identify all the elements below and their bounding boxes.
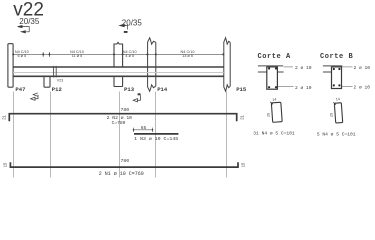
Corte A slab top line	[258, 65, 283, 67]
svg-text:2 N1 ø 10 C=760: 2 N1 ø 10 C=760	[99, 171, 144, 177]
rebar N3 dimension 65 line	[134, 128, 153, 132]
svg-text:2 ø 10: 2 ø 10	[354, 65, 371, 71]
rebar N3 bar	[134, 133, 178, 135]
stirrup tick P13 left	[113, 53, 115, 55]
stirrup label span 3: N4 C/10 4 o 5	[123, 50, 137, 58]
Corte A stirrup outline	[267, 67, 278, 89]
svg-text:Corte B: Corte B	[320, 53, 354, 61]
Corte A top bars 2 o 10	[268, 67, 270, 69]
Corte B bottom bars 2 o 10	[333, 84, 335, 86]
stirrup tick P12 right	[48, 52, 50, 56]
stirrup tick P13 right	[122, 53, 124, 55]
svg-text:21: 21	[2, 114, 7, 119]
svg-text:Corte A: Corte A	[258, 53, 292, 61]
svg-text:21: 21	[239, 114, 244, 119]
svg-text:P15: P15	[236, 86, 247, 93]
svg-text:15: 15	[3, 162, 8, 167]
column P13 below beam	[114, 76, 123, 87]
Corte B stirrup shape N4	[333, 102, 342, 123]
svg-text:C=780: C=780	[112, 120, 126, 126]
section cut mark Corte B top	[120, 24, 128, 33]
svg-text:P14: P14	[157, 86, 168, 93]
svg-text:11 ø 5: 11 ø 5	[72, 54, 82, 58]
stirrup tick P14 left	[146, 53, 148, 55]
svg-text:29: 29	[330, 113, 334, 117]
svg-text:6 ø 5: 6 ø 5	[17, 54, 26, 58]
svg-text:20/35: 20/35	[122, 19, 143, 28]
svg-text:780: 780	[120, 158, 129, 164]
Corte A leader bottom	[278, 86, 294, 88]
svg-text:29: 29	[267, 113, 271, 117]
svg-text:65: 65	[141, 125, 147, 131]
beam V22 outline top line	[13, 66, 224, 68]
svg-text:V23: V23	[57, 79, 63, 83]
svg-text:2 ø 10: 2 ø 10	[295, 85, 312, 91]
rebar N1 bar	[10, 162, 238, 167]
svg-text:13 ø 5: 13 ø 5	[182, 54, 193, 58]
section cut mark Corte B bottom	[133, 93, 140, 102]
section cut mark Corte A bottom	[31, 93, 38, 101]
stirrup tick P47	[12, 53, 14, 55]
Corte B slab bottom left	[323, 71, 331, 73]
stirrup distribution line	[13, 54, 224, 56]
svg-text:15: 15	[240, 162, 245, 167]
svg-text:2 ø 10: 2 ø 10	[354, 84, 371, 90]
stirrup label span 1: N4 C/10 6 o 5	[15, 50, 29, 58]
slab underside line	[13, 72, 224, 74]
stirrup label span 4: N4 C/10 13 o 5	[181, 50, 195, 58]
Corte A stirrup shape N4	[270, 101, 282, 122]
svg-text:P47: P47	[15, 86, 25, 93]
svg-text:P12: P12	[52, 86, 63, 93]
svg-text:14: 14	[336, 97, 341, 102]
svg-text:20/35: 20/35	[19, 17, 40, 26]
gridline P15	[226, 92, 228, 178]
Corte B leader top	[342, 66, 353, 68]
stirrup label span 2: N4 C/10 11 o 5	[70, 50, 84, 58]
svg-text:4 ø 5: 4 ø 5	[125, 54, 134, 58]
svg-text:P13: P13	[124, 86, 135, 93]
column P47	[8, 44, 13, 87]
Corte B slab top line	[323, 65, 343, 67]
gridline P14	[155, 92, 157, 178]
crossing beam V23 marks	[54, 66, 57, 78]
Corte B stirrup outline	[332, 67, 342, 89]
Corte A leader top	[284, 66, 294, 68]
column P12 (below beam only)	[44, 76, 50, 87]
column P15 (continuous, break marks)	[224, 38, 230, 91]
gridline P47	[13, 92, 15, 178]
gridline P13	[119, 92, 121, 178]
svg-text:2 ø 10: 2 ø 10	[295, 65, 312, 71]
Corte A slab bottom left	[258, 71, 267, 73]
svg-text:1 N3 ø 10 C=145: 1 N3 ø 10 C=145	[134, 136, 178, 142]
rebar N2 bar	[9, 114, 236, 122]
svg-text:5 N4 ø 5 C=101: 5 N4 ø 5 C=101	[317, 132, 356, 138]
column P14 (continuous, break marks)	[148, 38, 156, 91]
stirrup tick P14 right	[155, 53, 157, 55]
svg-text:780: 780	[120, 107, 129, 113]
section cut mark Corte A top	[18, 26, 30, 33]
column P13 above beam	[114, 42, 123, 66]
svg-text:14: 14	[272, 97, 277, 102]
Corte B leader bottom	[342, 85, 353, 87]
stirrup tick P12 left	[42, 52, 44, 56]
svg-text:31 N4 ø 5 C=101: 31 N4 ø 5 C=101	[253, 131, 295, 137]
Corte B top bars 2 o 10	[333, 68, 335, 70]
Corte A bottom bars 2 o 10	[268, 86, 270, 88]
stirrup tick P15	[222, 53, 224, 55]
Corte A slab bottom right	[277, 71, 283, 73]
gridline P12	[50, 92, 52, 178]
beam V22 outline bottom line	[13, 75, 224, 77]
